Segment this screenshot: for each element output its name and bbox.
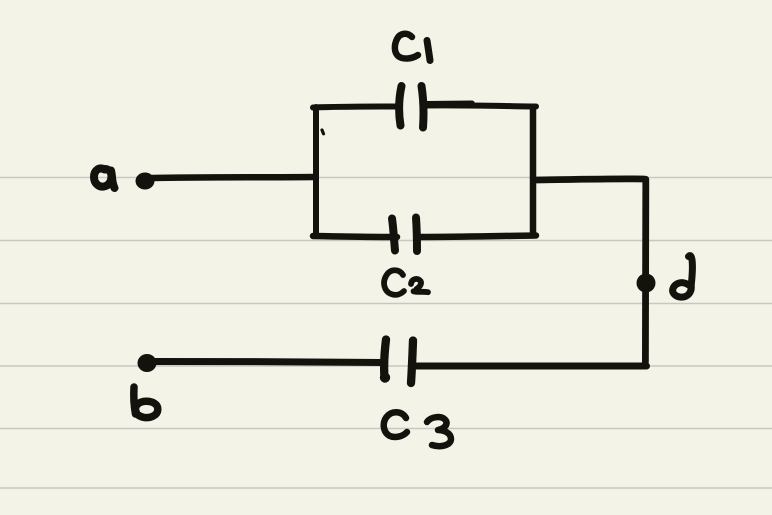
- wire: box top edge left segment: [313, 107, 396, 108]
- wire capacitor C3 to corner junction: [413, 363, 647, 370]
- wire: box left edge: [313, 107, 319, 236]
- ruled lines (decorative): [0, 178, 772, 489]
- label C2: [384, 270, 428, 295]
- node a: [136, 173, 155, 190]
- wire: box to corner, and down to node b level: [534, 179, 646, 362]
- wire: box bottom edge right segment: [420, 236, 536, 238]
- wire node b to capacitor C3: [156, 362, 382, 363]
- capacitor C3 left plate bottom blob: [380, 372, 390, 382]
- capacitor C3 plates: [384, 340, 413, 384]
- stray pen mark: [322, 130, 324, 134]
- wire node a to parallel box: [152, 177, 315, 178]
- label a: [94, 168, 115, 188]
- label b: [134, 387, 158, 418]
- wire: box top edge right segment: [424, 105, 536, 106]
- wire: box right edge: [530, 107, 537, 235]
- label C3: [384, 412, 451, 446]
- node b: [138, 354, 157, 372]
- capacitor C1 plates: [399, 86, 423, 128]
- label C1: [395, 34, 430, 61]
- capacitor C2 plates: [392, 218, 417, 252]
- label d: [673, 256, 693, 298]
- wire: box bottom edge left segment: [313, 236, 397, 237]
- wire: top edge overlap stroke: [426, 100, 472, 106]
- node d: [637, 274, 656, 293]
